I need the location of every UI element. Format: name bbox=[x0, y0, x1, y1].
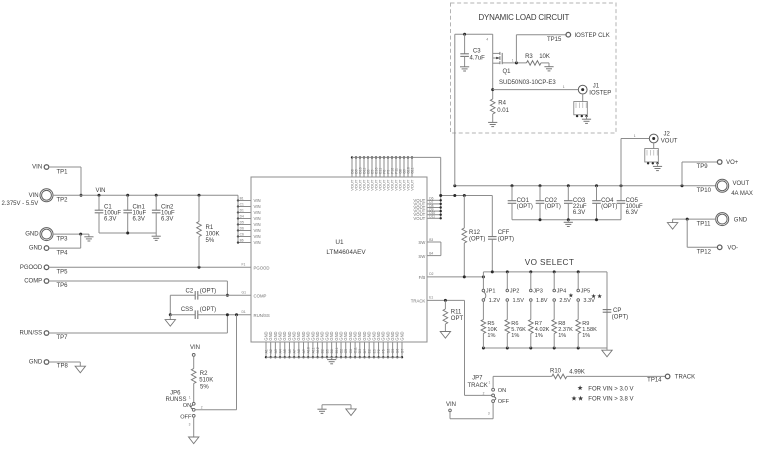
svg-text:VOUT: VOUT bbox=[733, 181, 750, 187]
svg-text:B11: B11 bbox=[335, 347, 339, 353]
svg-text:E5: E5 bbox=[372, 349, 376, 353]
svg-text:VOUT: VOUT bbox=[413, 216, 425, 221]
svg-text:JP2: JP2 bbox=[510, 289, 520, 295]
svg-text:6.3V: 6.3V bbox=[573, 210, 585, 216]
svg-text:1%: 1% bbox=[511, 333, 519, 339]
svg-text:G7: G7 bbox=[400, 349, 404, 354]
svg-text:F/B: F/B bbox=[419, 275, 426, 280]
svg-text:VOUT: VOUT bbox=[410, 179, 415, 191]
svg-text:TP11: TP11 bbox=[697, 222, 712, 228]
svg-text:GND: GND bbox=[29, 246, 43, 252]
svg-text:TP5: TP5 bbox=[57, 270, 69, 276]
svg-text:E1: E1 bbox=[429, 296, 433, 300]
svg-text:(OPT): (OPT) bbox=[545, 204, 561, 210]
svg-text:VIN: VIN bbox=[254, 234, 261, 239]
svg-text:D6: D6 bbox=[240, 227, 244, 231]
svg-text:E2: E2 bbox=[368, 349, 372, 353]
svg-text:VIN: VIN bbox=[254, 204, 261, 209]
svg-text:G11: G11 bbox=[410, 167, 414, 173]
svg-text:OFF: OFF bbox=[498, 399, 510, 405]
svg-text:4.99K: 4.99K bbox=[569, 370, 585, 376]
svg-text:B1: B1 bbox=[240, 197, 244, 201]
svg-text:A12: A12 bbox=[316, 347, 320, 353]
svg-text:4: 4 bbox=[486, 38, 488, 42]
svg-text:D2: D2 bbox=[429, 272, 433, 276]
svg-text:TP12: TP12 bbox=[697, 249, 712, 255]
svg-text:R11: R11 bbox=[451, 309, 462, 315]
svg-text:2: 2 bbox=[483, 391, 485, 395]
svg-text:GND: GND bbox=[734, 218, 748, 224]
svg-text:C6: C6 bbox=[240, 233, 244, 237]
svg-text:1.5V: 1.5V bbox=[513, 298, 525, 304]
svg-text:OPT: OPT bbox=[451, 316, 464, 322]
svg-text:R10: R10 bbox=[550, 369, 562, 375]
svg-text:1%: 1% bbox=[487, 333, 495, 339]
svg-text:U1: U1 bbox=[335, 239, 344, 246]
svg-text:TP10: TP10 bbox=[697, 188, 712, 194]
svg-text:CSS: CSS bbox=[181, 307, 193, 313]
svg-text:J2: J2 bbox=[664, 131, 671, 137]
svg-text:VIN: VIN bbox=[29, 193, 39, 199]
svg-text:COMP: COMP bbox=[254, 294, 267, 299]
svg-text:4A MAX: 4A MAX bbox=[731, 191, 753, 197]
svg-text:GND: GND bbox=[29, 360, 43, 366]
svg-text:A8: A8 bbox=[297, 349, 301, 353]
svg-text:DYNAMIC LOAD CIRCUIT: DYNAMIC LOAD CIRCUIT bbox=[478, 13, 569, 22]
svg-text:ON: ON bbox=[498, 388, 506, 394]
svg-text:TP15: TP15 bbox=[547, 37, 562, 43]
svg-text:3: 3 bbox=[488, 411, 490, 415]
svg-text:OFF: OFF bbox=[180, 414, 192, 420]
svg-text:(OPT): (OPT) bbox=[200, 289, 216, 295]
svg-text:F1: F1 bbox=[242, 263, 246, 267]
svg-text:(OPT): (OPT) bbox=[517, 204, 533, 210]
svg-text:VIN: VIN bbox=[254, 198, 261, 203]
svg-text:CP: CP bbox=[613, 308, 621, 314]
svg-text:1.8V: 1.8V bbox=[536, 298, 548, 304]
svg-text:D1: D1 bbox=[240, 209, 244, 213]
svg-text:JP5: JP5 bbox=[581, 289, 591, 295]
svg-text:TP8: TP8 bbox=[57, 363, 69, 369]
svg-text:SUD50N03-10CP-E3: SUD50N03-10CP-E3 bbox=[499, 80, 556, 86]
svg-text:B5: B5 bbox=[325, 349, 329, 353]
svg-text:(OPT): (OPT) bbox=[601, 204, 617, 210]
svg-text:0.01: 0.01 bbox=[497, 108, 509, 114]
svg-text:SW: SW bbox=[418, 240, 426, 245]
svg-text:VIN: VIN bbox=[96, 188, 106, 194]
svg-text:J1: J1 bbox=[593, 84, 600, 90]
svg-text:TRACK: TRACK bbox=[411, 299, 426, 304]
svg-text:JP6: JP6 bbox=[170, 391, 181, 397]
svg-text:PGOOD: PGOOD bbox=[20, 265, 43, 271]
svg-text:VIN: VIN bbox=[32, 165, 42, 171]
svg-text:5%: 5% bbox=[206, 238, 215, 244]
svg-text:1: 1 bbox=[634, 134, 636, 138]
svg-text:A4: A4 bbox=[278, 349, 282, 353]
svg-text:B8: B8 bbox=[330, 349, 334, 353]
svg-text:GND: GND bbox=[399, 331, 404, 340]
svg-text:A11: A11 bbox=[311, 347, 315, 353]
svg-text:1.2V: 1.2V bbox=[489, 298, 501, 304]
svg-text:TP3: TP3 bbox=[57, 236, 69, 242]
svg-text:C8: C8 bbox=[349, 349, 353, 354]
svg-text:(OPT): (OPT) bbox=[469, 236, 485, 242]
svg-text:10K: 10K bbox=[539, 54, 550, 60]
svg-text:3.3V: 3.3V bbox=[583, 298, 595, 304]
svg-text:VO+: VO+ bbox=[726, 160, 739, 166]
svg-text:RUNSS: RUNSS bbox=[165, 397, 186, 403]
svg-text:G6: G6 bbox=[396, 349, 400, 354]
svg-text:TRACK: TRACK bbox=[675, 375, 695, 381]
svg-text:B4: B4 bbox=[429, 251, 433, 255]
svg-text:510K: 510K bbox=[199, 377, 213, 383]
svg-text:CFF: CFF bbox=[498, 230, 510, 236]
svg-text:100K: 100K bbox=[206, 232, 220, 238]
svg-text:JP7: JP7 bbox=[472, 376, 483, 382]
svg-text:FOR VIN > 3.0 V: FOR VIN > 3.0 V bbox=[588, 386, 633, 392]
svg-text:C3: C3 bbox=[473, 48, 481, 54]
svg-text:2: 2 bbox=[201, 405, 203, 409]
svg-text:D4: D4 bbox=[240, 215, 244, 219]
svg-text:A3: A3 bbox=[274, 349, 278, 353]
svg-text:(OPT): (OPT) bbox=[612, 314, 628, 320]
svg-text:VIN: VIN bbox=[254, 222, 261, 227]
svg-text:1%: 1% bbox=[582, 333, 590, 339]
svg-text:D5: D5 bbox=[240, 221, 244, 225]
svg-text:RUN/SS: RUN/SS bbox=[254, 313, 270, 318]
svg-text:D3: D3 bbox=[358, 349, 362, 354]
svg-text:TRACK: TRACK bbox=[467, 383, 487, 389]
svg-text:G5: G5 bbox=[391, 349, 395, 354]
svg-text:6.3V: 6.3V bbox=[133, 217, 145, 223]
svg-text:F5: F5 bbox=[382, 349, 386, 353]
svg-text:R1: R1 bbox=[206, 225, 214, 231]
svg-text:C2: C2 bbox=[186, 289, 194, 295]
svg-text:VO-: VO- bbox=[727, 246, 738, 252]
svg-text:R3: R3 bbox=[525, 54, 533, 60]
svg-text:TP4: TP4 bbox=[57, 250, 69, 256]
svg-text:TP6: TP6 bbox=[57, 283, 69, 289]
svg-text:ON: ON bbox=[183, 403, 191, 409]
svg-text:VOUT: VOUT bbox=[661, 139, 678, 145]
svg-text:SW: SW bbox=[418, 254, 426, 259]
svg-text:(OPT): (OPT) bbox=[200, 307, 216, 313]
svg-text:TP7: TP7 bbox=[57, 335, 69, 341]
svg-text:PGOOD: PGOOD bbox=[254, 266, 270, 271]
svg-text:VIN: VIN bbox=[254, 216, 261, 221]
svg-text:B3: B3 bbox=[429, 238, 433, 242]
svg-text:1: 1 bbox=[489, 380, 491, 384]
svg-text:C2: C2 bbox=[339, 349, 343, 354]
svg-text:FOR VIN > 3.8 V: FOR VIN > 3.8 V bbox=[588, 397, 633, 403]
svg-text:2.5V: 2.5V bbox=[559, 298, 571, 304]
svg-text:C5: C5 bbox=[344, 349, 348, 354]
svg-text:TP2: TP2 bbox=[57, 198, 69, 204]
svg-text:3: 3 bbox=[189, 422, 191, 426]
svg-text:A10: A10 bbox=[307, 347, 311, 353]
svg-text:5%: 5% bbox=[200, 384, 209, 390]
svg-text:B2: B2 bbox=[321, 349, 325, 353]
svg-text:C11: C11 bbox=[354, 347, 358, 353]
svg-text:(OPT): (OPT) bbox=[498, 236, 514, 242]
svg-text:R12: R12 bbox=[469, 230, 481, 236]
svg-text:D11: D11 bbox=[429, 215, 435, 219]
svg-text:A7: A7 bbox=[293, 349, 297, 353]
svg-text:A6: A6 bbox=[288, 349, 292, 353]
svg-text:JP1: JP1 bbox=[486, 289, 496, 295]
svg-text:6.3V: 6.3V bbox=[626, 210, 638, 216]
svg-text:IOSTEP: IOSTEP bbox=[589, 91, 611, 97]
svg-text:GND: GND bbox=[25, 232, 39, 238]
svg-text:A2: A2 bbox=[269, 349, 273, 353]
svg-text:JP3: JP3 bbox=[533, 289, 543, 295]
svg-text:VIN: VIN bbox=[254, 240, 261, 245]
svg-text:C1: C1 bbox=[240, 203, 244, 207]
svg-text:VIN: VIN bbox=[446, 402, 456, 408]
svg-text:R2: R2 bbox=[200, 371, 208, 377]
svg-text:JP4: JP4 bbox=[557, 289, 567, 295]
svg-text:B6: B6 bbox=[240, 239, 244, 243]
svg-text:RUN/SS: RUN/SS bbox=[20, 331, 43, 337]
svg-text:D1: D1 bbox=[242, 310, 246, 314]
svg-text:D7: D7 bbox=[363, 349, 367, 354]
svg-text:COMP: COMP bbox=[24, 279, 42, 285]
svg-text:1: 1 bbox=[189, 396, 191, 400]
svg-text:VIN: VIN bbox=[190, 345, 200, 351]
svg-text:VIN: VIN bbox=[254, 228, 261, 233]
svg-text:A9: A9 bbox=[302, 349, 306, 353]
svg-text:Q1: Q1 bbox=[503, 69, 512, 75]
svg-text:VIN: VIN bbox=[254, 210, 261, 215]
svg-text:IOSTEP CLK: IOSTEP CLK bbox=[575, 33, 610, 39]
svg-text:TP9: TP9 bbox=[697, 164, 709, 170]
svg-text:A5: A5 bbox=[283, 349, 287, 353]
svg-text:1%: 1% bbox=[558, 333, 566, 339]
svg-text:R4: R4 bbox=[498, 101, 506, 107]
svg-text:1: 1 bbox=[512, 59, 514, 63]
svg-text:1: 1 bbox=[563, 85, 565, 89]
svg-text:6.3V: 6.3V bbox=[161, 217, 173, 223]
svg-text:G1: G1 bbox=[242, 290, 247, 294]
svg-text:TP1: TP1 bbox=[57, 169, 69, 175]
svg-text:G2: G2 bbox=[386, 349, 390, 354]
svg-text:A1: A1 bbox=[264, 349, 268, 353]
svg-text:2.375V - 5.5V: 2.375V - 5.5V bbox=[2, 201, 39, 207]
svg-text:LTM4604AEV: LTM4604AEV bbox=[326, 249, 366, 256]
svg-text:4.7uF: 4.7uF bbox=[470, 55, 486, 61]
svg-text:F2: F2 bbox=[377, 349, 381, 353]
svg-text:VO SELECT: VO SELECT bbox=[525, 258, 575, 267]
svg-text:TP14: TP14 bbox=[647, 377, 662, 383]
svg-text:6.3V: 6.3V bbox=[104, 217, 116, 223]
svg-text:1%: 1% bbox=[535, 333, 543, 339]
